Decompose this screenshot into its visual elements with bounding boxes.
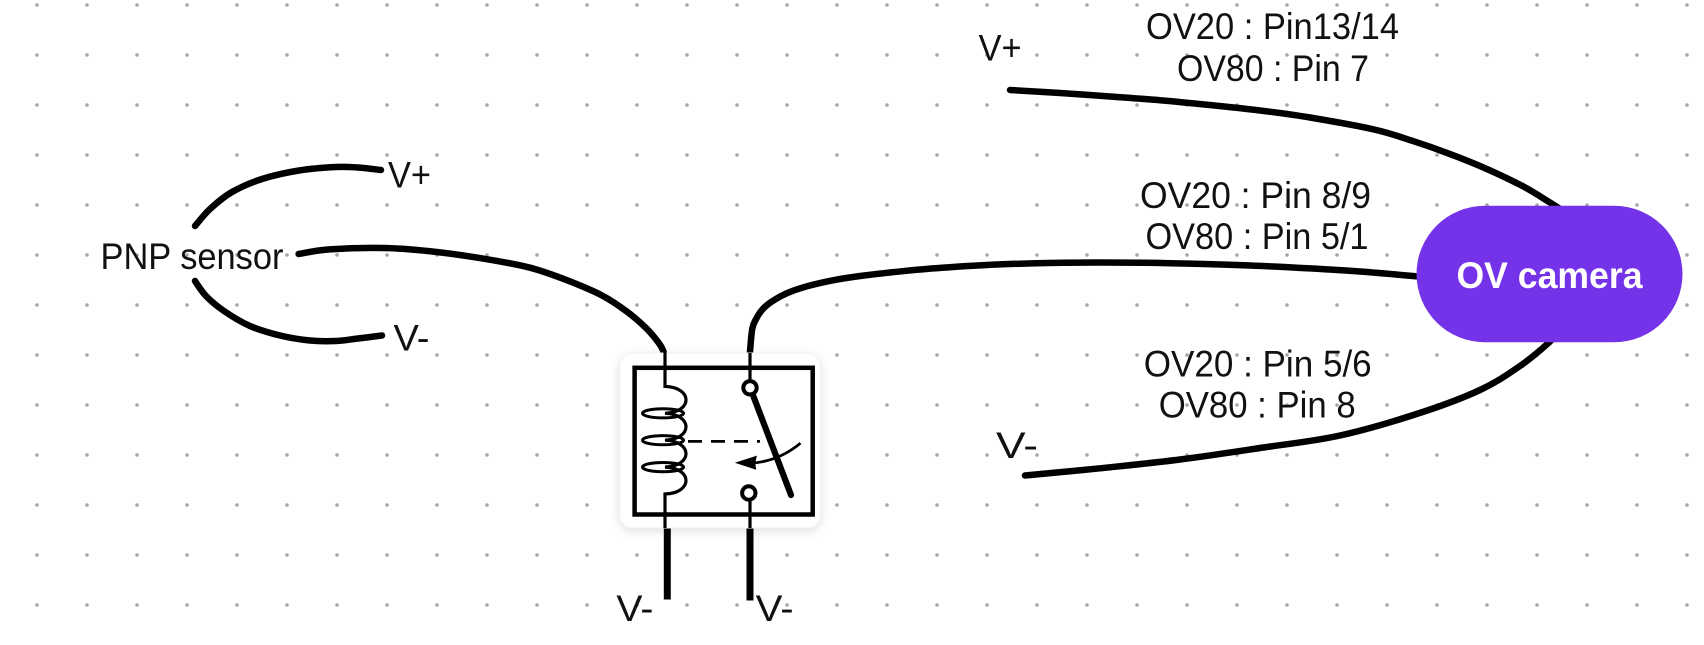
svg-text:OV camera: OV camera: [1457, 255, 1643, 296]
svg-text:V-: V-: [756, 588, 794, 629]
svg-text:V-: V-: [996, 425, 1038, 466]
svg-text:OV20 : Pin13/14: OV20 : Pin13/14: [1146, 6, 1399, 47]
svg-text:PNP sensor: PNP sensor: [101, 236, 284, 277]
svg-text:V+: V+: [388, 154, 431, 195]
svg-text:OV20 : Pin 8/9: OV20 : Pin 8/9: [1140, 175, 1371, 216]
svg-text:OV80 : Pin 5/1: OV80 : Pin 5/1: [1146, 216, 1369, 257]
svg-text:OV80 : Pin 7: OV80 : Pin 7: [1177, 48, 1369, 89]
svg-text:OV20 : Pin 5/6: OV20 : Pin 5/6: [1144, 344, 1372, 385]
svg-text:OV80 : Pin 8: OV80 : Pin 8: [1159, 384, 1356, 425]
svg-text:V-: V-: [394, 318, 430, 359]
svg-text:V-: V-: [616, 588, 653, 629]
svg-text:V+: V+: [979, 27, 1022, 68]
